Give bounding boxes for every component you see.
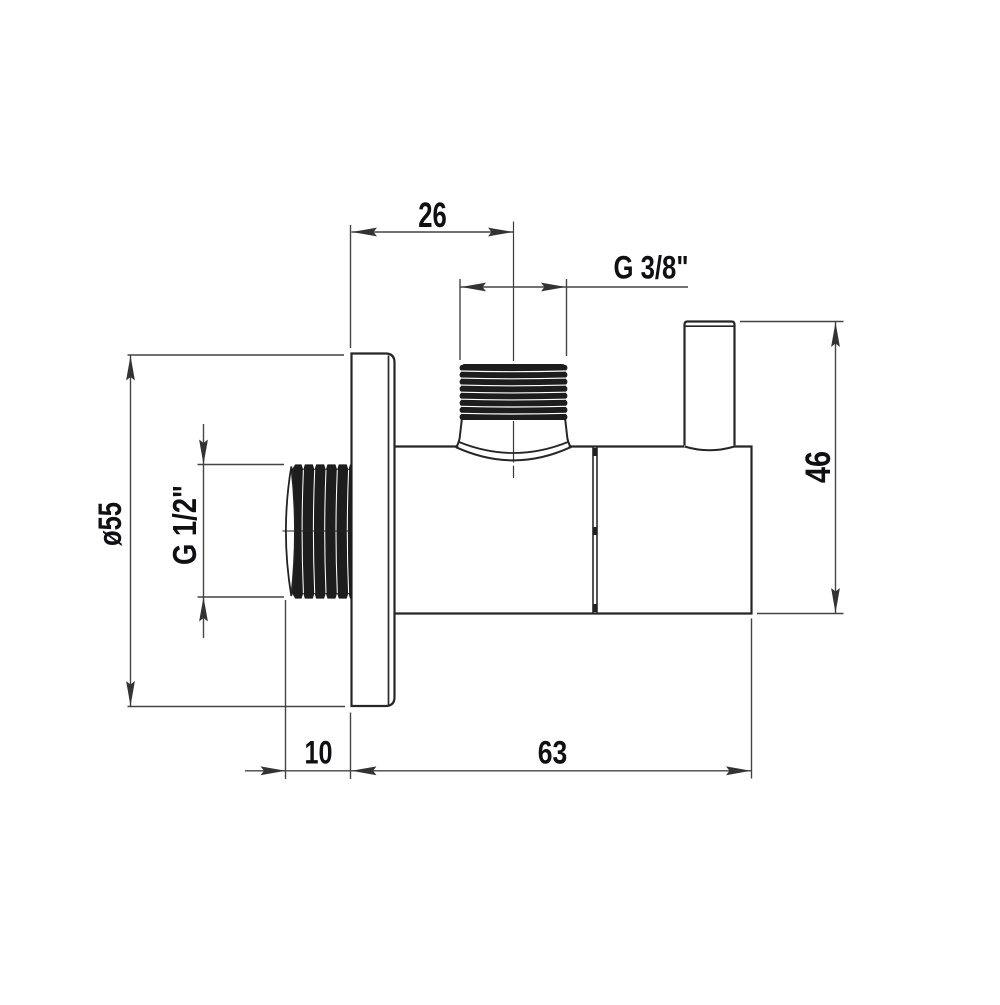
G1/2 thread pitch line <box>283 530 353 532</box>
dimension o55 arrow top <box>126 356 135 381</box>
G1/2 inlet thread body <box>293 464 352 599</box>
dimensions 10 and 63 extension lines <box>286 600 752 779</box>
dimension 63 arrow right <box>726 766 751 775</box>
dimension o55 arrow bottom <box>126 681 135 706</box>
G3/8 outlet thread body <box>460 365 568 420</box>
junction dot left <box>455 445 458 448</box>
dimension 63 arrow left <box>352 766 377 775</box>
center line of G3/8 outlet <box>513 222 515 479</box>
bell skirt lower arc <box>456 447 571 460</box>
svg-text:ø55: ø55 <box>92 502 128 546</box>
dimension 46 extension lines <box>740 322 844 614</box>
svg-text:G 3/8": G 3/8" <box>614 250 689 286</box>
dimension G 3/8 line with leader <box>461 286 689 288</box>
dimension G 3/8 arrow right <box>541 283 566 292</box>
body cap joint ring <box>593 448 597 613</box>
dimension G 1/2 arrow top <box>199 440 208 465</box>
neck taper right line <box>565 420 571 448</box>
dimension 10 arrow <box>261 766 286 775</box>
wall flange plate o55 outline <box>352 354 395 707</box>
G3/8 thread crest gaps <box>461 371 566 414</box>
dimension G 3/8 extension lines <box>460 279 567 360</box>
dimension o55 extension lines <box>128 355 346 707</box>
dimension 26 line <box>352 231 514 233</box>
dimension 26 extension line <box>350 225 352 348</box>
svg-text:26: 26 <box>418 196 447 235</box>
handle stem outline <box>685 322 735 446</box>
dimension G 1/2 extension lines <box>198 465 285 598</box>
svg-text:G 1/2": G 1/2" <box>166 485 203 565</box>
handle stem cap line <box>685 325 735 327</box>
junction dot right <box>569 445 572 448</box>
dimension o55 line <box>130 356 132 707</box>
valve body top edge left segment <box>395 445 456 447</box>
dimension 46 arrow top <box>831 322 840 347</box>
dimension 46 line <box>835 322 837 613</box>
dimension G 3/8 arrow left <box>461 283 486 292</box>
dimension 26 arrow right <box>488 228 513 237</box>
dimensions 10 and 63 line <box>245 770 752 772</box>
dimension G 1/2 arrow bottom <box>199 597 208 622</box>
svg-text:46: 46 <box>799 451 838 483</box>
valve body top edge right segment <box>571 445 685 447</box>
svg-text:63: 63 <box>538 735 568 771</box>
bell skirt upper arc <box>459 442 568 453</box>
dimension 26 arrow left <box>352 228 377 237</box>
svg-text:10: 10 <box>305 735 333 771</box>
G1/2 thread crest gaps <box>302 470 349 593</box>
valve body right and bottom edges <box>395 447 752 614</box>
neck taper left line <box>456 420 462 448</box>
dimension G 1/2 line <box>203 424 205 638</box>
dimension 46 arrow bottom <box>831 588 840 613</box>
G1/2 thread end lens <box>286 467 295 597</box>
handle stem base arc <box>685 447 735 451</box>
flange front face line <box>388 356 390 705</box>
